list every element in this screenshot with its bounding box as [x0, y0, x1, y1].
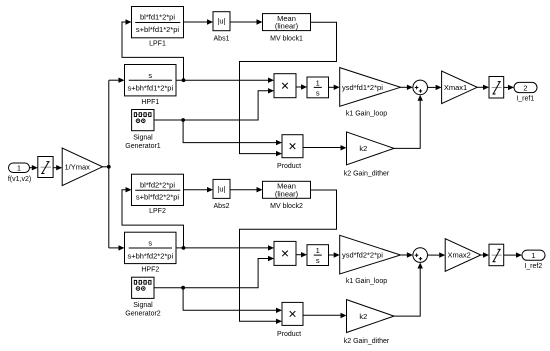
svg-text:I_ref2: I_ref2 [524, 263, 542, 270]
product block (loop) channel 2 [274, 241, 296, 265]
wire k2 Gain_dither to Sum channel 1 [394, 100, 420, 148]
svg-text:1/Ymax: 1/Ymax [65, 162, 91, 171]
svg-text:k2: k2 [359, 312, 367, 321]
sum block channel 1 [413, 80, 428, 95]
svg-text:s+bh*fd1*2*pi: s+bh*fd1*2*pi [127, 84, 173, 93]
svg-text:k1 Gain_loop: k1 Gain_loop [346, 278, 387, 285]
svg-text:I_ref1: I_ref1 [516, 95, 534, 102]
wire MV block1 to Product (dither demod) [240, 22, 337, 153]
wire Saturation to 1/Ymax gain [53, 167, 56, 169]
junction node main trunk [107, 165, 111, 169]
wire Sum to Xmax1 [428, 86, 436, 88]
wire Signal Generator2 to Product loop input [154, 259, 268, 288]
svg-text:Generator2: Generator2 [125, 311, 161, 318]
product block (dither demod) channel 1 Product [282, 135, 303, 158]
wire Product to k2 Gain_dither channel 2 [303, 314, 341, 316]
abs block Abs2 [213, 179, 230, 198]
wire saturation to output port 2 [504, 86, 508, 88]
svg-text:|u|: |u| [217, 17, 225, 26]
svg-text:bl*fd1*2*pi: bl*fd1*2*pi [140, 13, 175, 22]
svg-text:LPF1: LPF1 [149, 40, 166, 47]
wire trunk to HPF1 [109, 79, 119, 81]
junction node HPF1 output [182, 78, 186, 82]
svg-text:k2 Gain_dither: k2 Gain_dither [344, 170, 390, 177]
svg-text:s: s [316, 256, 320, 265]
transfer function LPF2 [132, 174, 184, 205]
output port 1 I_ref2 [522, 250, 545, 260]
wire HPF2 output to Product (loop) [176, 247, 268, 249]
wire LPF1 to Abs1 [184, 21, 208, 23]
svg-text:|u|: |u| [217, 184, 225, 193]
svg-text:(linear): (linear) [275, 189, 299, 198]
svg-text:(linear): (linear) [275, 22, 299, 31]
wire MV block2 to Product (dither demod) [240, 190, 337, 321]
wire trunk vertical [108, 80, 110, 248]
svg-text:s: s [316, 88, 320, 97]
gain k2 Gain_dither channel 1 [347, 132, 395, 165]
svg-text:Abs2: Abs2 [214, 203, 230, 210]
wire Abs2 to MV block2 [230, 189, 257, 191]
wire Product to Integrator channel 1 [296, 86, 301, 88]
product block (dither demod) channel 2 Product [282, 302, 303, 325]
mean block MV block2 [263, 181, 311, 198]
abs block Abs1 [213, 12, 230, 31]
svg-text:2: 2 [523, 83, 527, 92]
svg-text:s: s [148, 71, 152, 80]
svg-text:f(v1,v2): f(v1,v2) [8, 176, 31, 183]
svg-text:Product: Product [277, 331, 301, 338]
svg-text:LPF2: LPF2 [149, 208, 166, 215]
svg-text:MV block2: MV block2 [270, 203, 303, 210]
svg-text:s+bh*fd2*2*pi: s+bh*fd2*2*pi [127, 251, 173, 260]
wire Abs1 to MV block1 [230, 21, 257, 23]
wire input to Saturation [30, 167, 33, 169]
svg-text:1: 1 [531, 251, 535, 260]
svg-text:s+bl*fd1*2*pi: s+bl*fd1*2*pi [136, 25, 179, 34]
svg-text:k2 Gain_dither: k2 Gain_dither [344, 338, 390, 345]
svg-text:Abs1: Abs1 [214, 35, 230, 42]
svg-text:s: s [148, 239, 152, 248]
wire saturation to output port 1 [504, 254, 516, 256]
wire Signal Generator1 to Product loop input [154, 91, 268, 120]
wire HPF1 output to Product (loop) [176, 79, 268, 81]
svg-text:HPF1: HPF1 [141, 99, 159, 106]
junction node Signal Generator1 output [181, 118, 185, 122]
integrator 1/s channel 1 [307, 77, 329, 98]
transfer function LPF1 [132, 7, 184, 38]
saturation block output channel 2 [489, 244, 504, 266]
svg-text:Signal: Signal [133, 302, 153, 309]
mean block MV block1 [263, 14, 311, 31]
wire Integrator to k1 Gain_loop channel 2 [329, 254, 335, 256]
wire Xmax2 to output saturation [481, 254, 483, 256]
svg-text:Xmax1: Xmax1 [444, 83, 467, 92]
junction node Signal Generator2 output [181, 286, 185, 290]
wire 1/Ymax to trunk junction [103, 166, 109, 168]
wire trunk to HPF2 [109, 247, 119, 249]
transfer function HPF1 [125, 65, 177, 96]
gain 1/Ymax [62, 148, 102, 186]
svg-text:Generator1: Generator1 [125, 143, 161, 150]
svg-text:HPF2: HPF2 [141, 267, 159, 274]
signal generator Signal Generator2 [132, 277, 154, 298]
signal generator Signal Generator1 [132, 110, 154, 131]
wire HPF1 output up to LPF1 input [122, 22, 184, 80]
integrator 1/s channel 2 [307, 245, 329, 266]
svg-text:bl*fd2*2*pi: bl*fd2*2*pi [140, 180, 175, 189]
output port 2 I_ref1 [514, 82, 537, 92]
gain k2 Gain_dither channel 2 [347, 300, 395, 333]
input port 1 f(v1,v2) [9, 163, 30, 173]
wire Integrator to k1 Gain_loop channel 1 [329, 86, 335, 88]
svg-text:Product: Product [277, 163, 301, 170]
wire Product to k2 Gain_dither channel 1 [303, 147, 341, 149]
wire k1 Gain_loop to Sum channel 2 [401, 254, 408, 256]
svg-text:MV block1: MV block1 [270, 35, 303, 42]
gain k1 Gain_loop ysd*fd2*2*pi [340, 235, 401, 274]
gain k1 Gain_loop ysd*fd1*2*pi [340, 68, 401, 107]
gain Xmax2 [445, 239, 481, 272]
junction node HPF2 output [182, 246, 186, 250]
wire k2 Gain_dither to Sum channel 2 [394, 268, 420, 316]
svg-text:k1 Gain_loop: k1 Gain_loop [346, 110, 387, 117]
wire Signal Generator1 branch to Product dither input [183, 120, 276, 143]
wire Signal Generator2 branch to Product dither input [183, 288, 276, 311]
wire k1 Gain_loop to Sum channel 1 [401, 86, 408, 88]
svg-text:k2: k2 [359, 144, 367, 153]
transfer function HPF2 [125, 232, 177, 263]
wire HPF2 output up to LPF2 input [122, 190, 184, 248]
wire LPF2 to Abs2 [184, 189, 208, 191]
saturation block output channel 1 [489, 77, 504, 99]
wire Xmax1 to output saturation [477, 86, 483, 88]
svg-text:1: 1 [316, 78, 320, 87]
wire Sum to Xmax2 [428, 254, 440, 256]
wire Product to Integrator channel 2 [296, 254, 301, 256]
svg-text:Xmax2: Xmax2 [448, 251, 471, 260]
svg-text:1: 1 [316, 246, 320, 255]
svg-text:ysd*fd2*2*pi: ysd*fd2*2*pi [342, 251, 383, 260]
svg-text:ysd*fd1*2*pi: ysd*fd1*2*pi [342, 83, 383, 92]
sum block channel 2 [413, 248, 428, 263]
svg-text:Signal: Signal [133, 135, 153, 142]
saturation block (input limiter) [38, 157, 53, 178]
svg-text:s+bl*fd2*2*pi: s+bl*fd2*2*pi [136, 193, 179, 202]
svg-text:1: 1 [17, 163, 21, 172]
product block (loop) channel 1 [274, 74, 296, 98]
gain Xmax1 [442, 71, 478, 104]
